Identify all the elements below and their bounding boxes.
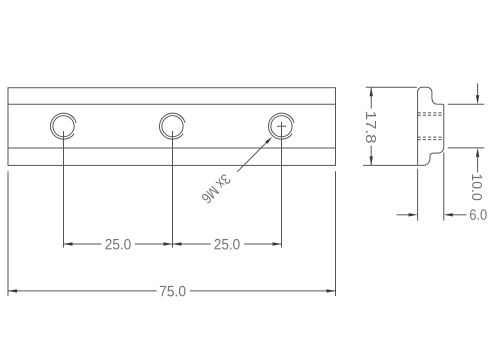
arrowhead 6.0 right pointing left (444, 213, 453, 216)
arrowhead 25.0 right (273, 242, 282, 245)
arrowhead 10.0 top pointing down (476, 95, 479, 104)
hidden thread line top pair (418, 113, 444, 115)
dimension 10.0 upper arrow line (477, 83, 479, 95)
front view bar outline (8, 88, 336, 166)
svg-text:75.0: 75.0 (159, 283, 186, 300)
arrowhead 17.8 bottom (370, 156, 373, 165)
leader line for 3x M6 (237, 142, 267, 172)
svg-text:6.0: 6.0 (469, 207, 487, 224)
side view profile outline (418, 87, 444, 165)
hole H2 thread arc (160, 113, 186, 139)
arrowhead 75.0 right (327, 289, 336, 292)
hole H1 core circle (53, 116, 74, 137)
dimension 10.0 lower arrow line (477, 157, 479, 173)
dimension line 75.0 segments (8, 290, 336, 292)
dimension line 17.8 segments (370, 87, 372, 165)
extension line 6.0 left (417, 169, 419, 221)
dimension line 6.0 left tail (397, 214, 410, 216)
hole H3 thread arc (269, 113, 295, 139)
arrowhead 10.0 bottom pointing up (476, 148, 479, 157)
svg-text:3x M6: 3x M6 (198, 170, 234, 206)
extension line hole H1 (63, 131, 65, 248)
hole H1 thread arc (51, 113, 77, 139)
arrowhead leader 3x M6 (265, 137, 272, 144)
hidden thread line bottom pair (418, 137, 444, 140)
extension line 10.0 top (448, 103, 485, 105)
arrowhead 17.8 top (370, 87, 373, 96)
extension line 75.0 left (7, 171, 9, 296)
svg-text:25.0: 25.0 (214, 236, 241, 253)
extension line hole H2 (172, 131, 174, 248)
dimension line 25.0 second segment pair (173, 243, 282, 245)
arrowhead 25.0 left (64, 242, 73, 245)
hole H3 center mark (277, 122, 286, 131)
front view flange top edge line (8, 103, 336, 105)
extension line 17.8 top (366, 86, 417, 88)
extension line 6.0 right (443, 153, 445, 221)
arrowhead 75.0 left (8, 289, 17, 292)
extension line 75.0 right (335, 171, 337, 296)
svg-text:25.0: 25.0 (105, 236, 132, 253)
arrowhead 25.0 middle right-pointing (164, 242, 173, 245)
svg-text:17.8: 17.8 (362, 111, 379, 144)
dimension line 6.0 right tail (453, 214, 467, 216)
arrowhead 6.0 left pointing right (409, 213, 418, 216)
extension line 17.8 bottom (363, 164, 417, 166)
svg-text:10.0: 10.0 (468, 173, 485, 201)
extension line 10.0 bottom (448, 147, 485, 149)
arrowhead 25.0 middle left-pointing (173, 242, 182, 245)
hole H2 core circle (162, 116, 183, 137)
extension line hole H3 (281, 130, 283, 248)
dimension line 25.0 first segment pair (64, 243, 173, 245)
front view flange bottom edge line (8, 147, 336, 149)
hole H3 core circle (271, 116, 292, 137)
